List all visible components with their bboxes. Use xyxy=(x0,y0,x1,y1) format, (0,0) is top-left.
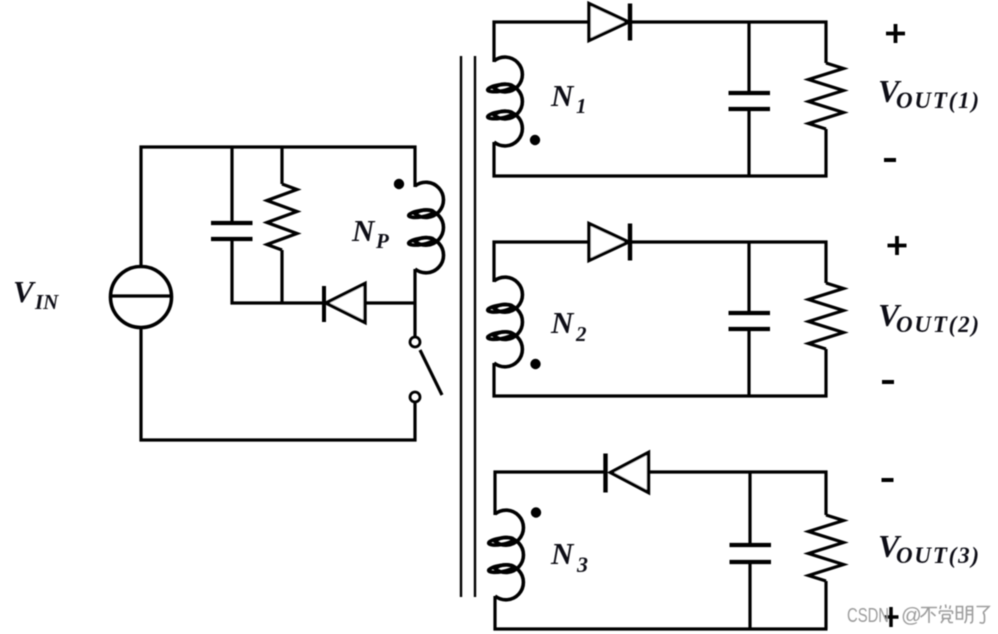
svg-text:N: N xyxy=(550,536,575,571)
resistor snubber xyxy=(267,146,297,305)
wire: sec1 bottom horizontal xyxy=(493,174,828,177)
wire: primary right vertical (top wire to winding) xyxy=(413,146,416,188)
capacitor C1 xyxy=(729,22,771,176)
svg-text:P: P xyxy=(375,229,389,253)
wire: sec3 top left segment xyxy=(494,470,605,473)
wire: sec3 bottom horizontal xyxy=(494,627,828,630)
wire: sec2 top left segment xyxy=(493,240,591,243)
dot: primary winding polarity xyxy=(394,179,404,189)
diode snubber (points left) xyxy=(324,284,417,323)
capacitor snubber xyxy=(211,146,253,305)
label plus out1 xyxy=(886,24,905,43)
wire: primary top horizontal xyxy=(140,145,417,148)
svg-text:N: N xyxy=(550,305,575,340)
watermark chinese glyphs xyxy=(921,605,990,624)
svg-text:CSDN: CSDN xyxy=(847,604,889,627)
wire: sec1 top left segment xyxy=(493,20,591,23)
capacitor C3 xyxy=(730,472,772,629)
resistor R1 load xyxy=(809,21,844,178)
label VOUT(3) xyxy=(878,528,981,568)
resistor R2 load xyxy=(809,241,844,398)
inductor N3 winding xyxy=(488,510,523,600)
svg-text:2: 2 xyxy=(575,322,587,346)
svg-text:N: N xyxy=(351,213,376,248)
inductor NP primary winding xyxy=(408,182,443,273)
wire: sec3 top right segment xyxy=(649,470,828,473)
label N2 xyxy=(550,305,587,346)
dot: N1 polarity xyxy=(530,135,540,145)
wire: winding bottom to switch xyxy=(413,269,416,337)
label VOUT(1) xyxy=(878,73,981,113)
wire: sec2 bottom horizontal xyxy=(493,394,828,397)
svg-text:IN: IN xyxy=(34,290,59,314)
inductor N2 winding xyxy=(487,277,522,367)
wire: sec3 left vertical lower xyxy=(493,596,496,631)
wire: sec1 left vertical lower xyxy=(492,142,495,178)
diode D2 (points right) xyxy=(589,224,630,261)
svg-text:3: 3 xyxy=(576,552,588,577)
wire: sec2 top right segment xyxy=(630,240,828,243)
transformer core xyxy=(461,56,475,597)
wire: sec1 left vertical upper xyxy=(492,21,495,63)
label N1 xyxy=(550,78,587,118)
wire: sec3 left vertical upper xyxy=(493,471,496,516)
wire: sec1 top right segment xyxy=(630,20,828,23)
svg-text:OUT(1): OUT(1) xyxy=(896,88,981,113)
capacitor C2 xyxy=(729,242,771,396)
label VOUT(2) xyxy=(878,297,981,337)
resistor R3 load xyxy=(809,471,844,630)
label NP xyxy=(351,213,389,253)
diode D1 (points right) xyxy=(589,4,630,41)
label minus out3 xyxy=(882,478,894,482)
wire: primary left vertical upper xyxy=(139,146,142,268)
svg-text:OUT(2): OUT(2) xyxy=(896,312,981,337)
wire: primary left vertical lower xyxy=(139,328,142,442)
inductor N1 winding xyxy=(487,57,522,146)
label plus out3 xyxy=(885,607,899,627)
wire: snubber bottom node xyxy=(231,301,325,304)
label N3 xyxy=(550,536,588,577)
svg-text:@: @ xyxy=(901,604,922,627)
dot: N2 polarity xyxy=(530,359,540,369)
label minus out2 xyxy=(882,380,894,384)
svg-text:N: N xyxy=(550,78,575,113)
wire: sec2 left vertical lower xyxy=(492,363,495,398)
wire: primary bottom horizontal xyxy=(140,438,417,441)
svg-text:OUT(3): OUT(3) xyxy=(896,543,981,568)
label VIN xyxy=(13,274,59,314)
label minus out1 xyxy=(884,158,896,162)
switch SW (open) xyxy=(410,337,442,442)
svg-text:1: 1 xyxy=(576,94,587,118)
watermark CSDN @user xyxy=(847,604,922,627)
source VIN xyxy=(111,267,172,328)
diode D3 (points left) xyxy=(606,453,649,493)
dot: N3 polarity xyxy=(531,507,541,517)
wire: sec2 left vertical upper xyxy=(492,241,495,283)
label plus out2 xyxy=(888,236,907,255)
svg-text:V: V xyxy=(13,274,36,309)
